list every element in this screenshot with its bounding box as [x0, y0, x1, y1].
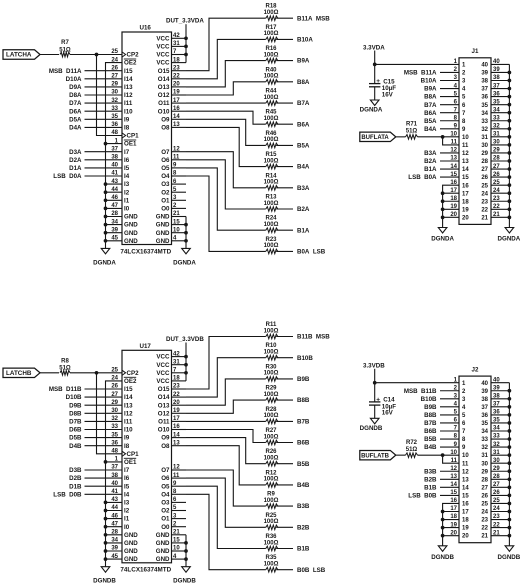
svg-text:R13: R13	[265, 195, 277, 201]
junction CP node	[95, 371, 99, 375]
node B6A output	[276, 121, 310, 128]
svg-text:15: 15	[462, 175, 469, 181]
svg-text:39: 39	[481, 389, 488, 395]
svg-text:DGNDA: DGNDA	[93, 259, 116, 266]
node B7B to J2 pin 6	[424, 420, 459, 427]
svg-text:VCC: VCC	[156, 378, 170, 385]
resistor R17 100Ω	[264, 25, 279, 42]
svg-text:B5B: B5B	[424, 436, 437, 443]
ground DGNDB below J2 left	[431, 546, 454, 561]
wire U16 O11 to R44	[186, 102, 266, 104]
svg-text:B2A: B2A	[424, 158, 437, 165]
node D7A wire to U16	[69, 100, 122, 107]
svg-text:LSB B0B: LSB B0B	[408, 493, 437, 500]
svg-text:11: 11	[462, 143, 469, 149]
svg-text:B6B: B6B	[297, 440, 310, 447]
svg-text:VCC: VCC	[156, 44, 170, 51]
svg-text:29: 29	[111, 400, 118, 406]
node B11B (MSB) to J2 pin 2	[404, 388, 459, 395]
svg-text:O14: O14	[158, 76, 170, 83]
node D4B wire to U17	[69, 443, 122, 450]
svg-text:B6B: B6B	[424, 428, 437, 435]
svg-text:26: 26	[111, 65, 118, 71]
svg-text:34: 34	[111, 219, 118, 225]
wire R7 to U16 CP2 pin 25	[70, 54, 122, 56]
wire CP bus to U16 CP1 pin 48	[97, 55, 123, 136]
svg-text:O9: O9	[161, 435, 170, 442]
svg-text:27: 27	[111, 392, 118, 398]
svg-text:100Ω: 100Ω	[264, 10, 279, 16]
svg-text:O5: O5	[161, 165, 170, 172]
svg-text:R36: R36	[265, 534, 277, 540]
resistor R25 100Ω	[264, 513, 279, 530]
svg-text:O0: O0	[161, 206, 170, 213]
svg-text:34: 34	[481, 429, 488, 435]
svg-text:34: 34	[111, 538, 118, 544]
wire U16 O9 to R46	[186, 119, 266, 145]
svg-text:CP1: CP1	[127, 451, 140, 458]
svg-text:B2B: B2B	[424, 476, 437, 483]
svg-text:R25: R25	[265, 513, 277, 519]
ground bus DGNDA J1 pins 21-40	[508, 64, 512, 227]
svg-text:BUFLATB: BUFLATB	[361, 453, 390, 459]
wire R8 to U17 CP2 pin 25	[70, 372, 122, 374]
svg-text:J2: J2	[472, 367, 479, 374]
svg-text:O0: O0	[161, 524, 170, 531]
node B7B output	[276, 419, 310, 426]
svg-text:10: 10	[450, 450, 457, 456]
wire U17 O13 to R30	[186, 379, 266, 405]
svg-text:I6: I6	[124, 157, 130, 164]
svg-text:B3B: B3B	[424, 468, 437, 475]
svg-text:29: 29	[481, 151, 488, 157]
svg-text:B8A: B8A	[297, 79, 310, 86]
svg-text:OE1: OE1	[124, 141, 137, 148]
node D0B (LSB) wire to U17	[53, 491, 122, 498]
svg-text:LATCHA: LATCHA	[6, 52, 32, 59]
svg-text:R14: R14	[265, 173, 277, 179]
top half: channel A	[3, 4, 521, 267]
svg-text:38: 38	[481, 397, 488, 403]
svg-text:12: 12	[462, 469, 469, 475]
svg-text:GND: GND	[156, 222, 170, 229]
svg-text:74LCX16374MTD: 74LCX16374MTD	[120, 567, 171, 574]
svg-text:33: 33	[481, 119, 488, 125]
svg-text:B5B: B5B	[297, 461, 310, 468]
svg-text:40: 40	[111, 163, 118, 169]
connector J1	[450, 48, 509, 224]
svg-text:D10A: D10A	[66, 76, 82, 83]
node B10B output	[276, 355, 313, 362]
resistor R26 100Ω	[264, 449, 279, 466]
svg-text:R7: R7	[61, 40, 69, 46]
node B7A to J1 pin 6	[424, 102, 459, 109]
svg-text:47: 47	[111, 521, 118, 527]
svg-text:O14: O14	[158, 394, 170, 401]
svg-text:D4B: D4B	[69, 443, 82, 450]
svg-text:LSB D0A: LSB D0A	[53, 173, 82, 180]
resistor R40 100Ω	[264, 67, 279, 84]
resistor R36 100Ω	[264, 534, 279, 551]
svg-text:LSB D0B: LSB D0B	[53, 491, 82, 498]
svg-text:DGNDA: DGNDA	[360, 107, 383, 114]
svg-text:16: 16	[450, 498, 457, 504]
svg-text:19: 19	[450, 522, 457, 528]
svg-text:41: 41	[111, 489, 118, 495]
svg-text:16: 16	[462, 183, 469, 189]
svg-text:17: 17	[450, 188, 457, 194]
svg-text:48: 48	[111, 449, 118, 455]
svg-text:GND: GND	[156, 238, 170, 245]
svg-text:11: 11	[462, 461, 469, 467]
wire 3.3VDB to J2 pin 1	[375, 382, 459, 384]
svg-text:40: 40	[481, 63, 488, 69]
node B8B output	[276, 397, 310, 404]
svg-text:36: 36	[481, 413, 488, 419]
node B11A (MSB) to J1 pin 2	[404, 70, 459, 77]
node B8A to J1 pin 5	[424, 94, 459, 101]
svg-text:O2: O2	[161, 189, 170, 196]
svg-text:B10A: B10A	[297, 37, 313, 44]
ground bus DGNDA J1 pins 16-20	[441, 185, 459, 227]
svg-text:I5: I5	[124, 483, 130, 490]
svg-text:R40: R40	[265, 67, 277, 73]
node D10B wire to U17	[66, 394, 122, 401]
node D0A (LSB) wire to U16	[53, 173, 122, 180]
svg-text:38: 38	[481, 79, 488, 85]
svg-text:GND: GND	[156, 540, 170, 547]
resistor R15 100Ω	[264, 152, 279, 169]
svg-text:B3B: B3B	[297, 503, 310, 510]
svg-text:B5A: B5A	[297, 143, 310, 150]
wire U17 O4 to R35	[186, 494, 266, 569]
node B8A output	[276, 79, 310, 86]
svg-text:29: 29	[481, 469, 488, 475]
svg-text:11: 11	[451, 458, 458, 464]
svg-text:51Ω: 51Ω	[406, 129, 418, 135]
svg-text:R12: R12	[265, 470, 277, 476]
svg-text:CP2: CP2	[127, 370, 140, 377]
svg-text:B1A: B1A	[424, 166, 437, 173]
svg-text:B2A: B2A	[297, 206, 310, 213]
svg-text:100Ω: 100Ω	[264, 116, 279, 122]
svg-text:40: 40	[111, 481, 118, 487]
svg-text:O3: O3	[161, 500, 170, 507]
svg-text:14: 14	[450, 482, 457, 488]
wire LATCHB to R8	[39, 372, 59, 374]
ground bus DGNDA right of U16	[184, 217, 188, 249]
svg-text:I5: I5	[124, 165, 130, 172]
node B4B output	[276, 482, 310, 489]
node B2A output	[276, 206, 310, 213]
resistor R9 100Ω	[264, 492, 279, 509]
svg-text:13: 13	[450, 474, 457, 480]
svg-text:10: 10	[450, 132, 457, 138]
svg-text:16V: 16V	[382, 410, 394, 417]
svg-text:GND: GND	[124, 556, 138, 563]
svg-text:+: +	[376, 396, 380, 403]
svg-text:D2A: D2A	[69, 157, 82, 164]
resistor R30 100Ω	[264, 364, 279, 381]
node B10B to J2 pin 3	[421, 396, 459, 403]
svg-text:33: 33	[111, 106, 118, 112]
power net 3.3VDA	[363, 44, 385, 83]
resistor R24 100Ω	[264, 216, 279, 233]
svg-text:O1: O1	[161, 516, 170, 523]
svg-text:26: 26	[481, 175, 488, 181]
svg-text:I8: I8	[124, 443, 130, 450]
svg-text:MSB B11A: MSB B11A	[404, 70, 437, 77]
svg-text:13: 13	[462, 477, 469, 483]
node B1B output	[276, 546, 310, 553]
svg-text:17: 17	[462, 191, 469, 197]
node B6B to J2 pin 7	[424, 428, 459, 435]
node D1B wire to U17	[69, 483, 122, 490]
svg-text:24: 24	[111, 376, 118, 382]
svg-text:O5: O5	[161, 483, 170, 490]
svg-text:35: 35	[111, 114, 118, 120]
svg-text:I10: I10	[124, 427, 133, 434]
svg-text:R23: R23	[265, 237, 277, 243]
svg-text:VCC: VCC	[156, 362, 170, 369]
svg-text:34: 34	[481, 111, 488, 117]
wire U16 O6 to R13	[186, 160, 266, 209]
node B5A to J1 pin 8	[424, 118, 459, 125]
wire U17 O15 to R11	[186, 337, 266, 390]
svg-text:GND: GND	[124, 532, 138, 539]
node B4B to J2 pin 9	[424, 444, 459, 451]
svg-text:12: 12	[450, 466, 457, 472]
svg-text:D4A: D4A	[69, 125, 82, 132]
svg-text:10: 10	[462, 135, 469, 141]
wire OE/ground bus (DGNDB) left of U17	[104, 381, 122, 567]
svg-text:19: 19	[450, 204, 457, 210]
svg-text:28: 28	[481, 159, 488, 165]
svg-text:B7A: B7A	[424, 102, 437, 109]
resistor R72 51Ω	[406, 440, 418, 458]
svg-text:B11B MSB: B11B MSB	[297, 334, 330, 341]
svg-text:39: 39	[111, 546, 118, 552]
svg-text:VCC: VCC	[156, 354, 170, 361]
resistor R29 100Ω	[264, 386, 279, 403]
svg-text:12: 12	[450, 148, 457, 154]
node B11B (MSB) output	[276, 334, 330, 341]
svg-text:DGNDB: DGNDB	[173, 578, 196, 585]
svg-text:28: 28	[111, 211, 118, 217]
wire R72 to J2 pins 10/11 with junction	[418, 453, 460, 463]
node D8B wire to U17	[69, 410, 122, 417]
ground DGNDA below J1 right	[498, 228, 521, 243]
node D1A wire to U16	[69, 165, 122, 172]
svg-text:R8: R8	[61, 358, 69, 364]
svg-text:100Ω: 100Ω	[264, 498, 279, 504]
node B9B to J2 pin 4	[424, 404, 459, 411]
svg-text:MSB D11A: MSB D11A	[49, 68, 82, 75]
svg-text:OE1: OE1	[124, 459, 137, 466]
svg-text:51Ω: 51Ω	[59, 366, 71, 372]
node B7A output	[276, 100, 310, 107]
svg-text:I12: I12	[124, 410, 133, 417]
svg-text:22: 22	[481, 207, 488, 213]
svg-text:O9: O9	[161, 116, 170, 123]
power net 3.3VDB	[363, 363, 385, 402]
wire U17 O14 to R10	[186, 358, 266, 397]
resistor R44 100Ω	[264, 89, 279, 106]
node B4A output	[276, 164, 310, 171]
svg-text:35: 35	[111, 432, 118, 438]
node B11A (MSB) output	[276, 15, 330, 22]
node B3B to J2 pin 12	[424, 468, 459, 475]
svg-text:D8A: D8A	[69, 92, 82, 99]
svg-text:29: 29	[111, 82, 118, 88]
svg-text:DGNDB: DGNDB	[93, 578, 116, 585]
svg-text:I2: I2	[124, 508, 130, 515]
svg-text:GND: GND	[124, 540, 138, 547]
wire U17 O6 to R25	[186, 478, 266, 527]
node D10A wire to U16	[66, 76, 122, 83]
node B2B to J2 pin 13	[424, 476, 459, 483]
power net DUT_3.3VDB to U17 VCC	[166, 336, 204, 381]
svg-text:24: 24	[481, 510, 488, 516]
svg-text:44: 44	[111, 505, 118, 511]
connector J2	[450, 367, 509, 543]
svg-text:39: 39	[111, 227, 118, 233]
svg-text:25: 25	[481, 502, 488, 508]
svg-text:GND: GND	[124, 548, 138, 555]
svg-text:O3: O3	[161, 181, 170, 188]
svg-text:51Ω: 51Ω	[406, 447, 418, 453]
junction CP node	[95, 53, 99, 57]
node B1A to J1 pin 14	[424, 166, 459, 173]
svg-text:DGNDB: DGNDB	[360, 425, 383, 432]
svg-text:33: 33	[111, 424, 118, 430]
svg-text:O10: O10	[158, 427, 170, 434]
wire U17 O12 to R29	[186, 400, 266, 413]
svg-text:R11: R11	[266, 322, 277, 328]
svg-text:100Ω: 100Ω	[264, 31, 279, 37]
svg-text:O8: O8	[161, 125, 170, 132]
svg-text:20: 20	[462, 215, 469, 221]
wire U16 O13 to R16	[186, 61, 266, 87]
svg-text:VCC: VCC	[156, 370, 170, 377]
svg-text:B7B: B7B	[424, 420, 437, 427]
node BUFLATB input flag	[360, 450, 396, 459]
svg-text:20: 20	[450, 212, 457, 218]
svg-text:DGNDA: DGNDA	[431, 236, 454, 243]
resistor R35 100Ω	[264, 555, 279, 572]
ground DGNDA below C15	[360, 100, 383, 114]
svg-text:I3: I3	[124, 181, 130, 188]
svg-text:30: 30	[111, 90, 118, 96]
svg-text:32: 32	[111, 416, 118, 422]
svg-text:32: 32	[481, 445, 488, 451]
node D4A wire to U16	[69, 125, 122, 132]
svg-text:R9: R9	[267, 492, 275, 498]
svg-text:B4B: B4B	[297, 482, 310, 489]
svg-text:37: 37	[481, 405, 488, 411]
node D11B (MSB) wire to U17	[49, 386, 122, 393]
svg-text:GND: GND	[156, 532, 170, 539]
svg-text:33: 33	[481, 437, 488, 443]
svg-text:R44: R44	[265, 89, 277, 95]
node B8B to J2 pin 5	[424, 412, 459, 419]
node D3B wire to U17	[69, 467, 122, 474]
svg-text:R30: R30	[265, 364, 277, 370]
ground DGNDA below U16 left	[93, 248, 116, 266]
svg-text:36: 36	[481, 95, 488, 101]
svg-text:O6: O6	[161, 475, 170, 482]
svg-text:DGNDB: DGNDB	[431, 554, 454, 561]
svg-text:I12: I12	[124, 92, 133, 99]
svg-text:I0: I0	[124, 524, 130, 531]
svg-text:O15: O15	[158, 386, 170, 393]
node B3A output	[276, 185, 310, 192]
node B9A output	[276, 58, 310, 65]
svg-text:37: 37	[111, 146, 118, 152]
svg-text:I13: I13	[124, 84, 133, 91]
svg-text:27: 27	[481, 167, 488, 173]
svg-text:45: 45	[111, 554, 118, 560]
capacitor C14 10µF 16V	[369, 396, 396, 418]
wire U17 O7 to R9	[186, 470, 266, 506]
svg-text:24: 24	[481, 191, 488, 197]
svg-text:13: 13	[450, 156, 457, 162]
svg-text:16V: 16V	[382, 91, 394, 98]
svg-text:GND: GND	[124, 230, 138, 237]
svg-text:B10B: B10B	[421, 396, 437, 403]
resistor R45 100Ω	[264, 110, 279, 127]
svg-text:14: 14	[462, 167, 469, 173]
svg-text:R10: R10	[265, 343, 277, 349]
svg-text:B4A: B4A	[424, 126, 437, 133]
svg-text:GND: GND	[156, 548, 170, 555]
svg-text:D1B: D1B	[69, 483, 82, 490]
svg-text:O7: O7	[161, 467, 170, 474]
node B0A (LSB) output	[276, 249, 326, 256]
svg-text:I9: I9	[124, 116, 130, 123]
node D2B wire to U17	[69, 475, 122, 482]
resistor R13 100Ω	[264, 195, 279, 212]
svg-text:DGNDA: DGNDA	[498, 236, 521, 243]
svg-text:OE2: OE2	[124, 60, 137, 67]
svg-text:27: 27	[111, 74, 118, 80]
svg-text:28: 28	[111, 530, 118, 536]
svg-text:45: 45	[111, 236, 118, 242]
svg-text:B5A: B5A	[424, 118, 437, 125]
svg-text:12: 12	[462, 151, 469, 157]
svg-text:D6A: D6A	[69, 108, 82, 115]
wire U16 O10 to R45	[186, 111, 266, 124]
svg-text:B1B: B1B	[297, 546, 310, 553]
svg-text:37: 37	[111, 465, 118, 471]
svg-text:D9A: D9A	[69, 84, 82, 91]
svg-text:35: 35	[481, 103, 488, 109]
wire U17 O10 to R27	[186, 430, 266, 443]
resistor R46 100Ω	[264, 131, 279, 148]
svg-text:47: 47	[111, 203, 118, 209]
svg-text:O7: O7	[161, 149, 170, 156]
svg-text:R17: R17	[265, 25, 277, 31]
node D7B wire to U17	[69, 419, 122, 426]
svg-text:O11: O11	[158, 419, 170, 426]
svg-text:DUT_3.3VDA: DUT_3.3VDA	[166, 18, 204, 25]
svg-text:GND: GND	[156, 230, 170, 237]
svg-text:D6B: D6B	[69, 427, 82, 434]
node LATCHB input flag	[3, 368, 40, 377]
svg-text:LATCHB: LATCHB	[6, 370, 32, 377]
node B4A to J1 pin 9	[424, 126, 459, 133]
node B2A to J1 pin 13	[424, 158, 459, 165]
